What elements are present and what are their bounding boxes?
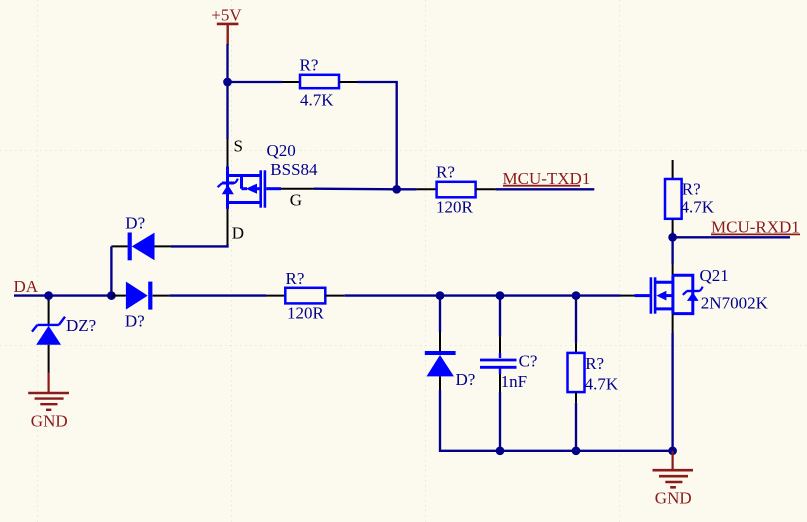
wire RXD node to Q21 drain: [671, 237, 673, 264]
zener diode DZ?: [32, 296, 96, 373]
svg-text:Q20: Q20: [267, 141, 296, 160]
wire DA segment: [49, 294, 112, 296]
wire to pulldown resistor: [575, 296, 577, 343]
wire lower diode to R3: [169, 294, 266, 296]
svg-text:4.7K: 4.7K: [300, 91, 334, 110]
resistor R? 120R (top): [417, 163, 496, 217]
svg-text:Q21: Q21: [700, 266, 729, 285]
junction bottom right: [668, 446, 677, 455]
resistor R? 120R (middle): [266, 269, 344, 322]
wire capacitor to bottom rail: [499, 392, 501, 451]
pin D of Q21: [672, 264, 674, 275]
wire middle row: [344, 294, 440, 296]
junction DA/DZ: [44, 291, 53, 300]
pin S of Q20: [227, 139, 229, 167]
svg-text:R?: R?: [436, 163, 455, 182]
resistor R? 4.7K (pullup right): [665, 179, 715, 232]
wire D to upper diode: [171, 244, 228, 246]
underline MCU-RXD1: [711, 233, 800, 235]
pin free end of R4: [672, 160, 674, 179]
wire +5V to junction: [226, 44, 228, 82]
pin gate of Q21: [621, 295, 635, 297]
svg-text:D?: D?: [456, 370, 476, 389]
underline MCU-TXD1: [503, 185, 580, 187]
junction gate node: [392, 185, 401, 194]
svg-text:C?: C?: [519, 351, 538, 370]
junction pulldown resistor: [572, 291, 581, 300]
svg-text:2N7002K: 2N7002K: [701, 294, 769, 313]
svg-text:D?: D?: [125, 312, 145, 331]
svg-text:1nF: 1nF: [501, 372, 527, 391]
svg-text:BSS84: BSS84: [270, 160, 318, 179]
wire to clamp diode: [439, 296, 441, 332]
wire clamp diode to bottom rail: [440, 390, 500, 451]
pin G of Q20: [281, 188, 314, 190]
svg-text:120R: 120R: [287, 303, 325, 322]
wire bottom rail: [500, 450, 673, 452]
diode D? (upper): [111, 214, 171, 261]
wire Q21 source to bottom rail: [671, 333, 673, 451]
svg-text:+5V: +5V: [211, 6, 242, 25]
wire R4 to RXD node: [671, 232, 673, 237]
junction at +5V rail: [223, 78, 232, 87]
transistor Q20 BSS84: [218, 167, 281, 209]
diode D? (clamp): [425, 332, 476, 390]
wire gate to junction: [314, 188, 397, 191]
wire pulldown to bottom rail: [575, 403, 577, 451]
svg-text:4.7K: 4.7K: [681, 197, 715, 216]
wire junction to R1: [228, 81, 283, 83]
wire middle row: [500, 294, 576, 296]
wire middle row: [440, 294, 500, 296]
wire S rail: [226, 82, 228, 139]
resistor R? 4.7K (top): [282, 56, 357, 110]
svg-text:DA: DA: [14, 277, 39, 296]
junction bottom pulldown: [572, 446, 581, 455]
capacitor C? 1nF: [480, 336, 537, 392]
ground GND (left): [28, 373, 69, 431]
ground GND (right): [653, 451, 694, 508]
wire R1 to gate row: [357, 82, 397, 189]
svg-text:R?: R?: [585, 354, 604, 373]
junction bottom capacitor: [496, 446, 505, 455]
wire to capacitor: [499, 296, 501, 337]
wire net MCU-RXD1: [673, 236, 790, 238]
svg-text:GND: GND: [655, 489, 692, 508]
junction clamp diode: [436, 291, 445, 300]
svg-text:DZ?: DZ?: [66, 316, 96, 335]
wire upper diode to DA node: [110, 246, 112, 295]
svg-text:120R: 120R: [436, 198, 474, 217]
transistor Q21 2N7002K: [635, 275, 703, 313]
pin S of Q21: [672, 314, 674, 333]
svg-text:R?: R?: [286, 269, 305, 288]
pin D of Q20: [227, 209, 229, 245]
resistor R? 4.7K (pulldown): [568, 343, 619, 403]
power +5V: [211, 6, 242, 45]
wire to Q21 gate: [576, 294, 621, 296]
svg-text:G: G: [290, 191, 302, 210]
svg-text:R?: R?: [300, 56, 319, 75]
junction capacitor: [496, 291, 505, 300]
junction DA branch: [107, 291, 116, 300]
svg-text:R?: R?: [682, 180, 701, 199]
junction MCU-RXD1: [668, 233, 677, 242]
diode D? (lower): [111, 282, 169, 331]
svg-text:S: S: [234, 137, 243, 156]
svg-text:GND: GND: [31, 412, 68, 431]
svg-text:D: D: [232, 224, 244, 243]
svg-text:4.7K: 4.7K: [585, 374, 619, 393]
wire net MCU-TXD1: [496, 188, 595, 190]
svg-text:D?: D?: [125, 214, 145, 233]
wire junction to R2: [397, 188, 417, 190]
wire DA: [14, 294, 49, 296]
